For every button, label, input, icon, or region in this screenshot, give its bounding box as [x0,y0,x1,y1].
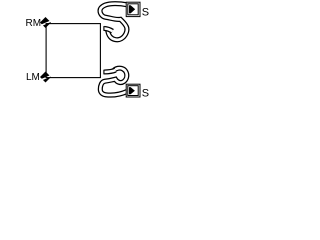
motor RM (wheel diamond, top-left corner) [40,17,53,29]
svg-text:LM: LM [26,72,40,83]
sensor S1 (top right box) [126,2,140,16]
sensor S2 detector icon (bar + triangle) [129,87,135,94]
sensor S2 (bottom right box) [126,84,140,97]
wire W2 free-end arm toward body [104,70,115,72]
svg-text:S: S [142,88,149,100]
sensor S1 detector icon (bar + triangle) [129,5,135,13]
svg-text:RM: RM [26,18,42,29]
motor LM (wheel diamond, bottom-left corner) [40,72,53,84]
robot body box [46,24,100,78]
wire W1 free-end arm toward body [104,28,112,31]
wire W1 (top curly wire to sensor) [100,4,127,40]
wire W2 end cap [103,70,105,75]
wire W2 (bottom curly wire to sensor) [100,68,127,95]
svg-text:S: S [142,7,149,19]
wire W1 end cap [103,26,105,31]
